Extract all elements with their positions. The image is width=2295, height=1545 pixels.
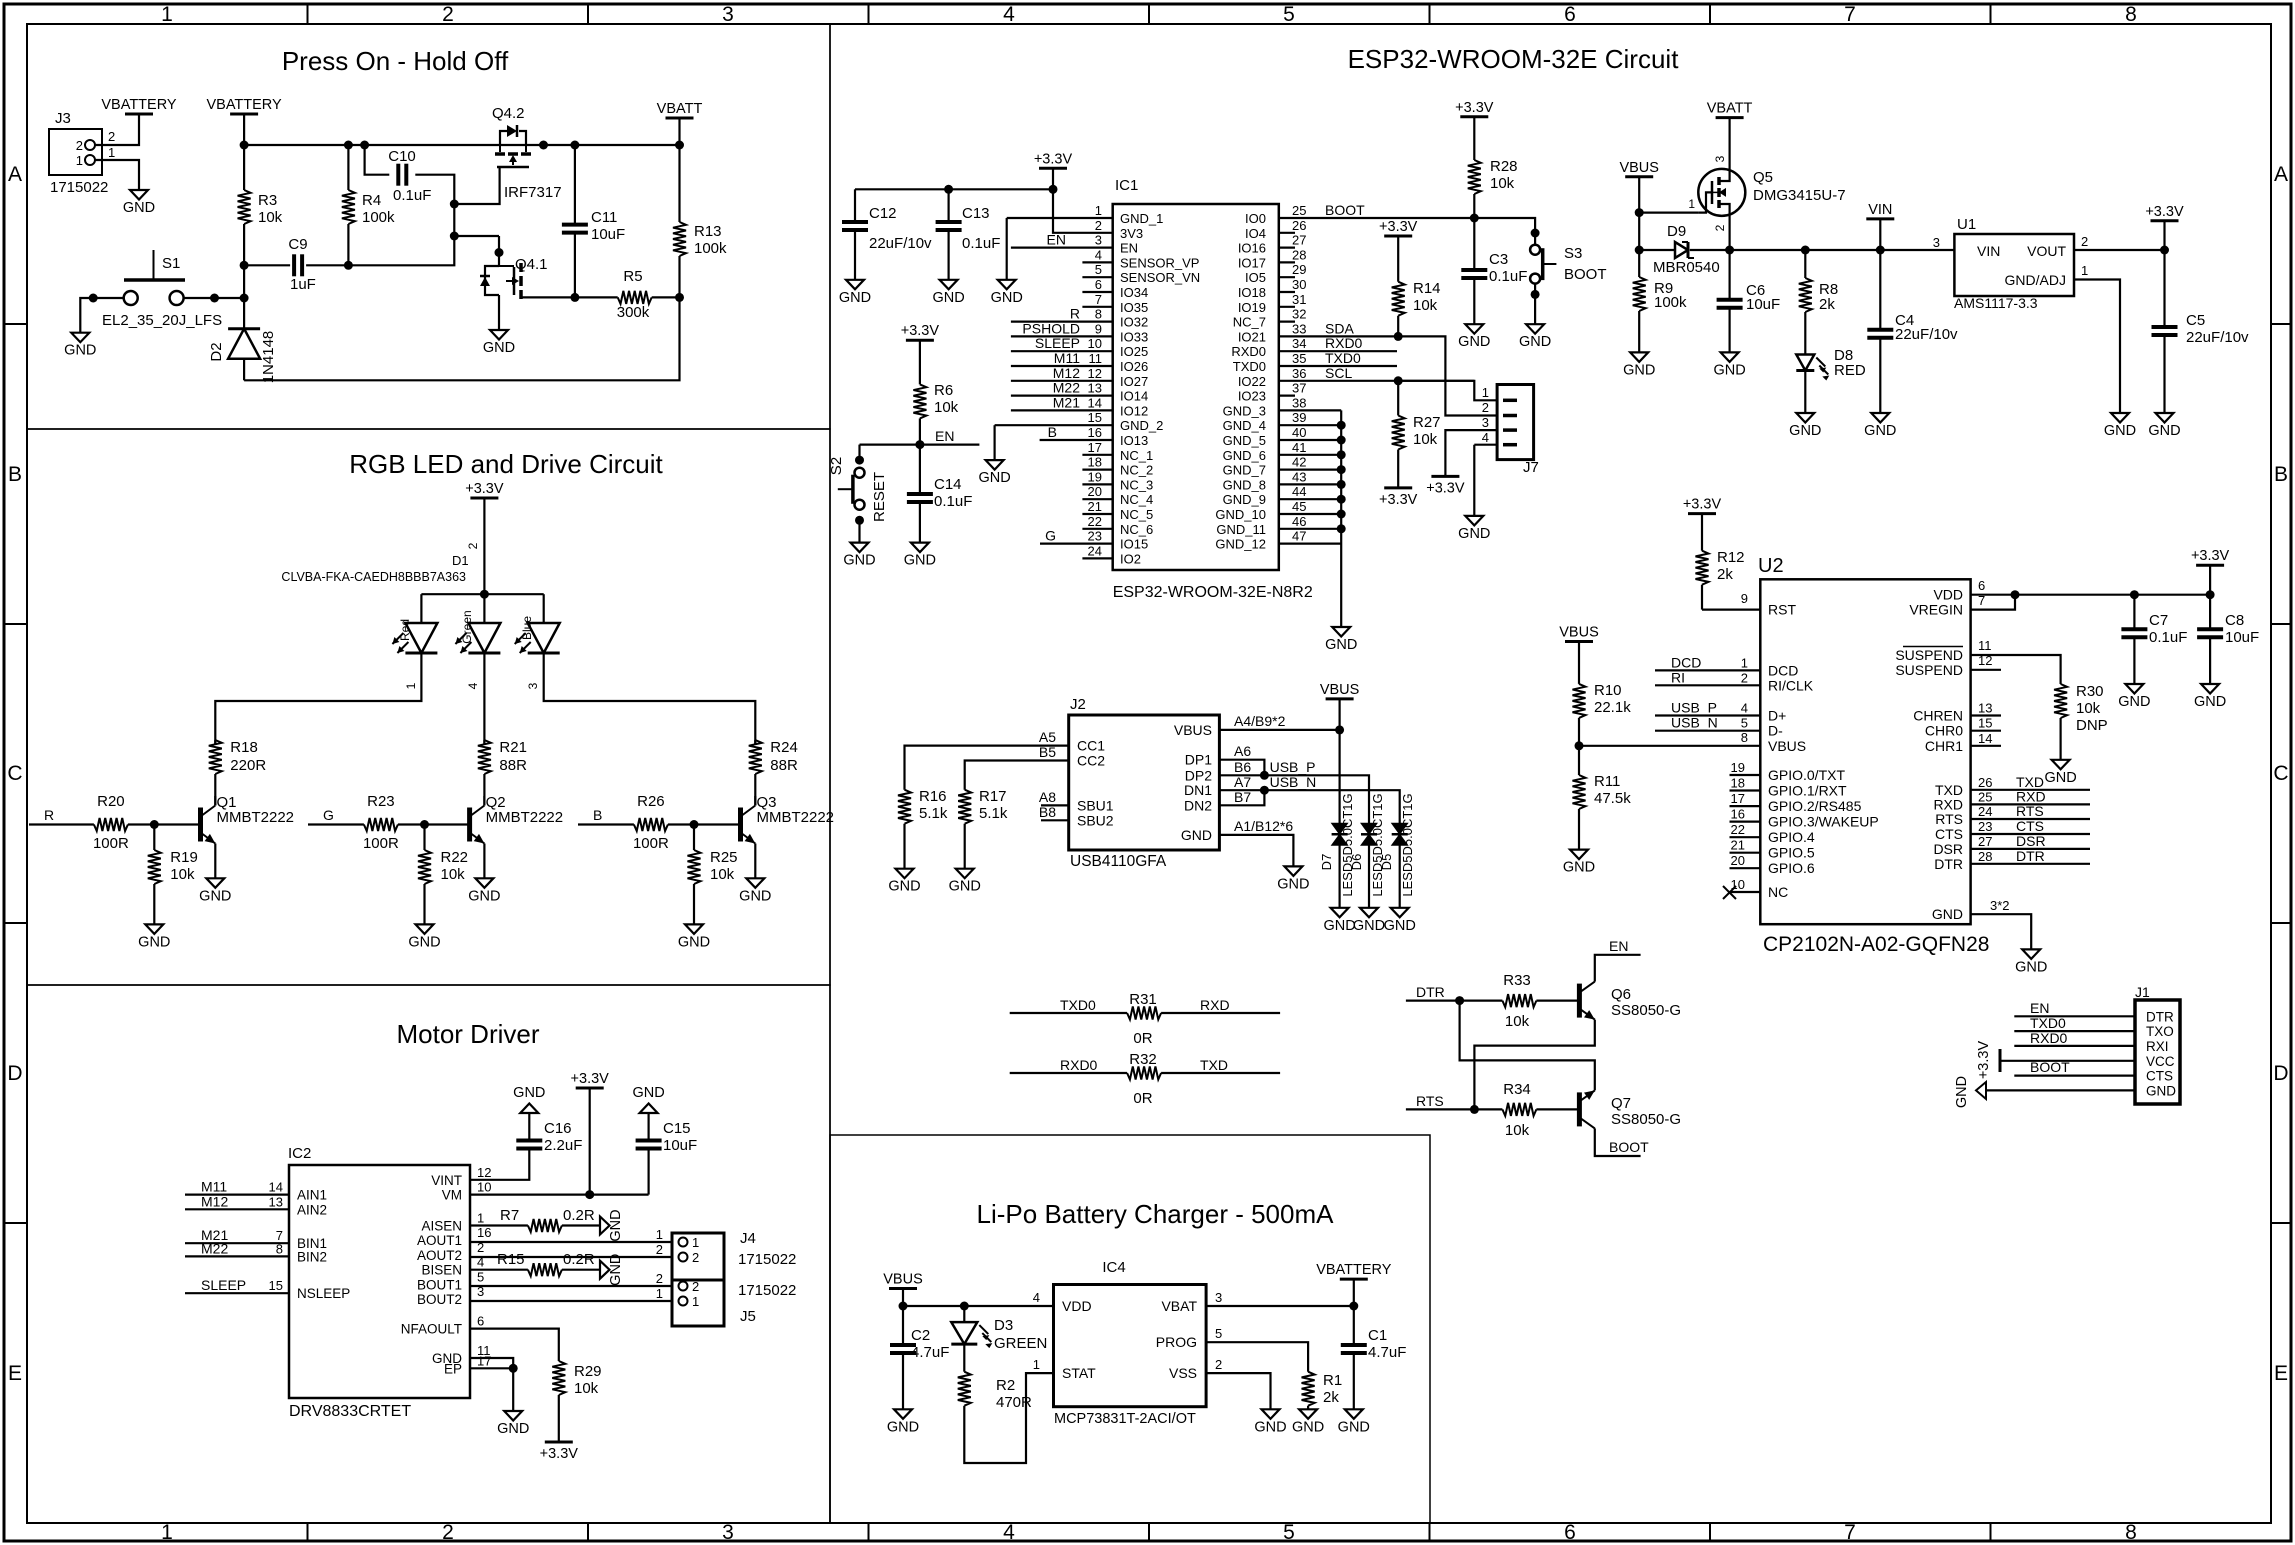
svg-text:DTR: DTR bbox=[1934, 856, 1963, 872]
svg-text:B: B bbox=[8, 463, 22, 486]
wire CC2 to R17 bbox=[965, 761, 1069, 790]
svg-text:28: 28 bbox=[1978, 849, 1992, 864]
svg-text:GND: GND bbox=[1563, 860, 1595, 876]
svg-text:GND: GND bbox=[843, 553, 875, 569]
svg-text:R2: R2 bbox=[996, 1377, 1015, 1394]
wire BOOT pin25 bbox=[1279, 217, 1475, 219]
svg-text:J2: J2 bbox=[1070, 696, 1086, 713]
svg-text:10k: 10k bbox=[170, 866, 195, 883]
wire J7 pin4 to GND bbox=[1474, 444, 1497, 446]
svg-text:R20: R20 bbox=[97, 793, 125, 810]
svg-text:R4: R4 bbox=[362, 192, 381, 209]
svg-text:J3: J3 bbox=[55, 110, 71, 127]
svg-text:RI/CLK: RI/CLK bbox=[1768, 677, 1814, 693]
svg-text:R15: R15 bbox=[497, 1251, 525, 1268]
resistor R25 base pulldown bbox=[693, 825, 695, 851]
svg-text:C16: C16 bbox=[544, 1120, 572, 1137]
power flag VBUS at charger bbox=[889, 1287, 917, 1290]
svg-text:0R: 0R bbox=[1133, 1090, 1152, 1107]
net labels M11 M12 M21 M22 SLEEP bbox=[185, 1193, 289, 1195]
resistor R6 bbox=[919, 340, 921, 384]
svg-text:A4/B9*2: A4/B9*2 bbox=[1234, 713, 1286, 729]
svg-text:GND: GND bbox=[2044, 770, 2076, 786]
svg-text:IO15: IO15 bbox=[1120, 537, 1148, 552]
svg-text:RTS: RTS bbox=[1935, 811, 1963, 827]
svg-text:J1: J1 bbox=[2135, 984, 2150, 1000]
svg-text:Q6: Q6 bbox=[1611, 986, 1631, 1003]
svg-text:R25: R25 bbox=[710, 849, 738, 866]
tvs diode D7 bbox=[1332, 823, 1348, 834]
svg-text:88R: 88R bbox=[499, 757, 527, 774]
svg-text:12: 12 bbox=[477, 1165, 491, 1180]
svg-text:DN1: DN1 bbox=[1184, 782, 1212, 798]
svg-text:2: 2 bbox=[2081, 234, 2088, 249]
svg-text:R28: R28 bbox=[1490, 158, 1518, 175]
svg-text:+3.3V: +3.3V bbox=[571, 1071, 610, 1087]
svg-text:IO2: IO2 bbox=[1120, 551, 1141, 566]
svg-text:22uF/10v: 22uF/10v bbox=[2186, 329, 2249, 346]
svg-text:SCL: SCL bbox=[1325, 365, 1352, 381]
svg-text:1: 1 bbox=[692, 1235, 699, 1250]
svg-text:10k: 10k bbox=[1413, 431, 1438, 448]
svg-text:47.5k: 47.5k bbox=[1594, 790, 1631, 807]
svg-text:DP2: DP2 bbox=[1185, 767, 1212, 783]
svg-text:RXD0: RXD0 bbox=[1231, 344, 1266, 359]
svg-text:EN: EN bbox=[2030, 1000, 2049, 1016]
wire DN1 USB_N bbox=[1219, 790, 1399, 823]
svg-text:GND: GND bbox=[1789, 423, 1821, 439]
svg-text:IO23: IO23 bbox=[1238, 389, 1266, 404]
ground GND at Q4.1 bbox=[490, 330, 508, 340]
svg-text:GND: GND bbox=[608, 1254, 624, 1286]
svg-text:GND: GND bbox=[1338, 1419, 1370, 1435]
svg-text:VDD: VDD bbox=[1933, 587, 1963, 603]
wire BOUT2 to J5 bbox=[470, 1300, 672, 1302]
power flag +3.3V at VM bbox=[576, 1087, 604, 1090]
svg-text:NC_7: NC_7 bbox=[1233, 315, 1266, 330]
svg-text:28: 28 bbox=[1292, 247, 1306, 262]
svg-text:VM: VM bbox=[442, 1188, 462, 1203]
svg-text:GND: GND bbox=[1277, 876, 1309, 892]
wire R3 bottom to S1 node bbox=[243, 265, 245, 298]
resistor R10 bbox=[1573, 684, 1586, 718]
svg-text:EL2_35_20J_LFS: EL2_35_20J_LFS bbox=[102, 312, 222, 329]
svg-text:IO27: IO27 bbox=[1120, 374, 1148, 389]
svg-text:100k: 100k bbox=[694, 240, 727, 257]
svg-text:A1/B12*6: A1/B12*6 bbox=[1234, 818, 1293, 834]
svg-text:2k: 2k bbox=[1819, 296, 1835, 313]
svg-text:22uF/10v: 22uF/10v bbox=[1895, 326, 1958, 343]
net label EN pin3 bbox=[1011, 247, 1113, 249]
svg-text:GND: GND bbox=[123, 200, 155, 216]
led D1 blue element bbox=[543, 594, 545, 623]
ic IC2 DRV8833CRTET box bbox=[289, 1165, 470, 1398]
ground GND at pin1 bbox=[998, 280, 1016, 290]
svg-text:IC1: IC1 bbox=[1115, 177, 1138, 194]
svg-text:C10: C10 bbox=[388, 148, 416, 165]
connector J1 bbox=[2135, 1000, 2180, 1104]
svg-text:5: 5 bbox=[1283, 1521, 1295, 1544]
svg-text:SUSPEND: SUSPEND bbox=[1895, 662, 1963, 678]
svg-text:C13: C13 bbox=[962, 205, 990, 222]
capacitor C5 bbox=[2163, 250, 2165, 327]
wire VBUS flag to D7 bbox=[1338, 699, 1340, 823]
wire Q4.1 source to R5 row bbox=[521, 297, 575, 299]
svg-text:D5: D5 bbox=[1379, 854, 1394, 871]
svg-text:GPIO.0/TXT: GPIO.0/TXT bbox=[1768, 767, 1845, 783]
svg-text:TXD: TXD bbox=[2016, 774, 2044, 790]
svg-text:10k: 10k bbox=[710, 866, 735, 883]
capacitor C16 bbox=[470, 1149, 529, 1180]
svg-text:RXI: RXI bbox=[2146, 1039, 2169, 1054]
power flag VBATTERY rail bbox=[230, 113, 258, 116]
svg-text:IO25: IO25 bbox=[1120, 344, 1148, 359]
svg-text:C14: C14 bbox=[934, 476, 962, 493]
svg-text:1: 1 bbox=[656, 1227, 663, 1242]
svg-text:R10: R10 bbox=[1594, 682, 1622, 699]
wire GND EP of IC2 bbox=[470, 1358, 513, 1368]
net label G pin23 bbox=[1040, 542, 1113, 544]
svg-text:IO12: IO12 bbox=[1120, 403, 1148, 418]
svg-text:+3.3V: +3.3V bbox=[2145, 204, 2184, 220]
svg-text:IO13: IO13 bbox=[1120, 433, 1148, 448]
wire bottom return bbox=[244, 297, 679, 380]
power flag +3.3V at J1 VCC bbox=[1999, 1049, 2002, 1072]
svg-text:46: 46 bbox=[1292, 514, 1306, 529]
wire J3 pin2 to VBATTERY bbox=[95, 114, 139, 145]
svg-text:6: 6 bbox=[1095, 277, 1102, 292]
power flag +3.3V IC1 bbox=[1039, 167, 1067, 170]
svg-text:VBAT: VBAT bbox=[1161, 1298, 1197, 1314]
svg-text:M11: M11 bbox=[201, 1179, 227, 1195]
wire J7 pin3 to +3.3V bbox=[1445, 430, 1497, 476]
svg-text:Motor Driver: Motor Driver bbox=[396, 1019, 539, 1049]
svg-text:1: 1 bbox=[1095, 203, 1102, 218]
resistor R5 bbox=[575, 296, 618, 298]
svg-text:2: 2 bbox=[656, 1242, 663, 1257]
Q5 gate lead bbox=[1698, 192, 1712, 212]
switch S2 RESET bbox=[858, 445, 860, 461]
svg-text:+3.3V: +3.3V bbox=[1426, 480, 1465, 496]
svg-text:DRV8833CRTET: DRV8833CRTET bbox=[289, 1403, 411, 1420]
connector J7 bbox=[1497, 385, 1534, 460]
ground GND at IC1 bus bbox=[1332, 627, 1350, 637]
svg-text:DCD: DCD bbox=[1671, 654, 1701, 670]
svg-text:NC_2: NC_2 bbox=[1120, 463, 1153, 478]
transistor Q3 MMBT2222 bbox=[738, 808, 743, 842]
svg-text:GND: GND bbox=[1458, 334, 1490, 350]
wire SDA pin33 bbox=[1279, 335, 1398, 337]
wire 3V3 pin2 to rail bbox=[1053, 189, 1113, 233]
wire VSS to GND bbox=[1206, 1373, 1270, 1409]
svg-text:1715022: 1715022 bbox=[50, 179, 108, 196]
svg-text:BOOT: BOOT bbox=[2030, 1059, 2070, 1075]
svg-text:2: 2 bbox=[656, 1271, 663, 1286]
resistor R22 base pulldown bbox=[423, 825, 425, 851]
U2 TXD RXD RTS CTS DSR DTR wires bbox=[1971, 789, 2090, 791]
wire VBAT to VBATTERY bbox=[1206, 1305, 1354, 1307]
svg-text:C11: C11 bbox=[591, 209, 617, 226]
U2 left wires DCD RI bbox=[1655, 669, 1760, 671]
U2 left wires USB_P USB_N bbox=[1655, 714, 1760, 716]
IC1 GND bus pins 38-47 bbox=[1279, 409, 1341, 411]
svg-text:2: 2 bbox=[76, 138, 83, 153]
svg-text:RESET: RESET bbox=[871, 472, 888, 522]
svg-text:GND_4: GND_4 bbox=[1223, 418, 1266, 433]
svg-text:10k: 10k bbox=[258, 209, 283, 226]
svg-text:Q4.2: Q4.2 bbox=[492, 105, 525, 122]
svg-text:VBUS: VBUS bbox=[1619, 160, 1659, 176]
svg-text:TXD0: TXD0 bbox=[1233, 359, 1266, 374]
svg-text:CTS: CTS bbox=[2016, 818, 2044, 834]
wire S1 right to node bbox=[184, 297, 245, 299]
power flag +3.3V at U1 bbox=[2151, 219, 2179, 222]
svg-text:2.2uF: 2.2uF bbox=[544, 1137, 582, 1154]
svg-text:+3.3V: +3.3V bbox=[465, 481, 504, 497]
svg-text:TXD0: TXD0 bbox=[1325, 350, 1361, 366]
svg-text:J5: J5 bbox=[740, 1308, 756, 1325]
svg-text:+3.3V: +3.3V bbox=[1455, 100, 1494, 116]
svg-text:1: 1 bbox=[2081, 263, 2088, 278]
svg-text:26: 26 bbox=[1292, 218, 1306, 233]
U2 SUSPEND pin12 stub bbox=[1971, 669, 2001, 671]
svg-text:SS8050-G: SS8050-G bbox=[1611, 1002, 1681, 1019]
svg-text:GND: GND bbox=[978, 470, 1010, 486]
ground GND at S1 bbox=[71, 333, 89, 343]
capacitor C14 bbox=[919, 445, 921, 494]
svg-text:J4: J4 bbox=[740, 1230, 756, 1247]
svg-text:D6: D6 bbox=[1349, 854, 1364, 871]
resistor R19 base pulldown bbox=[153, 825, 155, 851]
svg-text:VBUS: VBUS bbox=[1174, 722, 1212, 738]
svg-text:GND: GND bbox=[739, 888, 771, 904]
power flag VBATT bbox=[666, 117, 694, 120]
svg-text:10uF: 10uF bbox=[2225, 629, 2259, 646]
svg-text:CHR0: CHR0 bbox=[1925, 723, 1963, 739]
svg-text:GND: GND bbox=[1954, 1076, 1970, 1108]
power flag VBATTERY at J3 bbox=[125, 113, 153, 116]
svg-text:4: 4 bbox=[1741, 701, 1748, 716]
svg-text:GND: GND bbox=[1181, 827, 1212, 843]
svg-text:25: 25 bbox=[1978, 789, 1992, 804]
svg-text:SBU2: SBU2 bbox=[1077, 812, 1114, 828]
resistor R30 bbox=[2054, 684, 2067, 718]
svg-text:1715022: 1715022 bbox=[738, 1251, 796, 1268]
svg-text:VBUS: VBUS bbox=[883, 1272, 923, 1288]
svg-text:5: 5 bbox=[1283, 3, 1295, 26]
svg-text:13: 13 bbox=[269, 1194, 283, 1209]
svg-text:+3.3V: +3.3V bbox=[901, 323, 940, 339]
svg-text:C8: C8 bbox=[2225, 612, 2244, 629]
svg-text:5: 5 bbox=[1095, 262, 1102, 277]
svg-text:Blue: Blue bbox=[520, 616, 534, 640]
svg-text:16: 16 bbox=[1088, 425, 1102, 440]
ground GND at U2 bbox=[2022, 949, 2040, 959]
svg-text:1: 1 bbox=[404, 682, 418, 689]
svg-text:VBUS: VBUS bbox=[1559, 625, 1599, 641]
wire DP1 bbox=[1219, 760, 1264, 776]
wire VBUS pin8 bbox=[1579, 745, 1760, 747]
svg-text:DMG3415U-7: DMG3415U-7 bbox=[1753, 187, 1846, 204]
net label B pin16 bbox=[1040, 439, 1113, 441]
svg-text:R18: R18 bbox=[230, 739, 258, 756]
svg-text:SS8050-G: SS8050-G bbox=[1611, 1111, 1681, 1128]
svg-text:Li-Po Battery Charger - 500mA: Li-Po Battery Charger - 500mA bbox=[977, 1199, 1335, 1229]
ground GND at D6 bbox=[1360, 908, 1378, 918]
svg-text:13: 13 bbox=[1088, 381, 1102, 396]
ic IC4 MCP73831 box bbox=[1054, 1285, 1207, 1407]
resistor R14 bbox=[1397, 236, 1399, 282]
svg-text:R22: R22 bbox=[441, 849, 469, 866]
svg-text:GND_10: GND_10 bbox=[1215, 507, 1266, 522]
svg-text:MBR0540: MBR0540 bbox=[1653, 259, 1720, 276]
wire +3.3V to D1 anode bus bbox=[483, 498, 485, 594]
power flag VBUS at R10 bbox=[1565, 640, 1593, 643]
svg-text:3*2: 3*2 bbox=[1990, 898, 2010, 913]
wire input R bbox=[29, 823, 94, 825]
wire base R25 bbox=[668, 823, 739, 825]
mosfet Q4.2 IRF7317 bbox=[499, 145, 501, 152]
svg-text:220R: 220R bbox=[230, 757, 266, 774]
svg-text:GND_11: GND_11 bbox=[1216, 522, 1266, 537]
svg-text:CTS: CTS bbox=[2146, 1069, 2173, 1084]
svg-text:SBU1: SBU1 bbox=[1077, 797, 1114, 813]
regulator U1 AMS1117-3.3 bbox=[1954, 234, 2074, 296]
svg-text:GND/ADJ: GND/ADJ bbox=[2005, 272, 2066, 288]
svg-text:+3.3V: +3.3V bbox=[1379, 492, 1418, 508]
svg-text:37: 37 bbox=[1292, 381, 1306, 396]
resistor R12 bbox=[1701, 514, 1703, 551]
svg-text:10uF: 10uF bbox=[591, 226, 625, 243]
svg-text:IO5: IO5 bbox=[1245, 270, 1266, 285]
ground GND at C8 bbox=[2201, 684, 2219, 694]
svg-text:2: 2 bbox=[1095, 218, 1102, 233]
svg-text:RXD: RXD bbox=[1200, 997, 1230, 1013]
ground GND at R9 bbox=[1630, 352, 1648, 362]
svg-text:2: 2 bbox=[1482, 400, 1489, 415]
svg-text:GPIO.6: GPIO.6 bbox=[1768, 860, 1815, 876]
svg-text:E: E bbox=[2274, 1362, 2288, 1385]
ground GND at C4 bbox=[1871, 413, 1889, 423]
svg-text:S1: S1 bbox=[162, 255, 180, 272]
resistor R2 470R bbox=[963, 1344, 965, 1372]
svg-text:VREGIN: VREGIN bbox=[1909, 602, 1963, 618]
svg-text:0.1uF: 0.1uF bbox=[1489, 268, 1527, 285]
svg-text:4.7uF: 4.7uF bbox=[1368, 1344, 1406, 1361]
svg-text:10k: 10k bbox=[1505, 1013, 1530, 1030]
svg-text:22: 22 bbox=[1088, 514, 1102, 529]
svg-text:45: 45 bbox=[1292, 499, 1306, 514]
diode D2 1N4148 bbox=[243, 298, 245, 329]
svg-text:VOUT: VOUT bbox=[2027, 243, 2066, 259]
svg-text:IC2: IC2 bbox=[288, 1145, 311, 1162]
svg-text:SUSPEND: SUSPEND bbox=[1895, 647, 1963, 663]
svg-text:1: 1 bbox=[1033, 1357, 1040, 1372]
wire J1 BOOT bbox=[2014, 1074, 2135, 1076]
svg-text:2: 2 bbox=[442, 3, 454, 26]
svg-text:GND: GND bbox=[1458, 526, 1490, 542]
wire J3 pin1 to GND bbox=[95, 160, 139, 190]
svg-text:1: 1 bbox=[76, 153, 83, 168]
wire BOOT to S3 bbox=[1474, 218, 1535, 233]
resistor R17 bbox=[958, 790, 971, 824]
power flag VBATTERY at charger bbox=[1340, 1278, 1368, 1281]
transistor Q7 SS8050-G bbox=[1577, 1092, 1582, 1126]
svg-text:40: 40 bbox=[1292, 425, 1306, 440]
ground GND at IC2 EP bbox=[504, 1411, 522, 1421]
svg-text:0R: 0R bbox=[1133, 1030, 1152, 1047]
svg-text:2: 2 bbox=[692, 1279, 699, 1294]
svg-text:B8: B8 bbox=[1039, 804, 1056, 820]
led D1 red element bbox=[420, 594, 422, 623]
svg-text:MMBT2222: MMBT2222 bbox=[486, 809, 564, 826]
svg-text:2: 2 bbox=[442, 1521, 454, 1544]
svg-text:GND: GND bbox=[1932, 906, 1963, 922]
wire top rail y=145 bbox=[244, 144, 679, 146]
wire NFAOULT to R29 bbox=[470, 1329, 559, 1361]
svg-text:C7: C7 bbox=[2149, 612, 2168, 629]
net label RTS bbox=[1406, 1108, 1503, 1110]
ground GND at D7 bbox=[1331, 908, 1349, 918]
wire Q7 collector to BOOT bbox=[1595, 1128, 1641, 1156]
svg-text:7: 7 bbox=[1095, 292, 1102, 307]
svg-text:8: 8 bbox=[1095, 307, 1102, 322]
svg-text:24: 24 bbox=[1978, 804, 1992, 819]
ground GND at S3 bbox=[1526, 324, 1544, 334]
svg-text:4: 4 bbox=[1003, 3, 1015, 26]
svg-text:36: 36 bbox=[1292, 366, 1306, 381]
wire DTR to Q7 emitter bbox=[1460, 1001, 1595, 1091]
svg-text:3: 3 bbox=[722, 3, 734, 26]
svg-text:LESD5D5.0CT1G: LESD5D5.0CT1G bbox=[1340, 793, 1355, 896]
wire C9 node to Q4 gate node bbox=[348, 204, 454, 265]
svg-text:DTR: DTR bbox=[2016, 848, 2045, 864]
ground GND at C6 bbox=[1721, 352, 1739, 362]
svg-text:VBATTERY: VBATTERY bbox=[206, 97, 282, 113]
ground GND at Q2 bbox=[475, 878, 493, 888]
wire Q6 collector to EN bbox=[1595, 955, 1641, 982]
svg-text:3: 3 bbox=[1482, 415, 1489, 430]
resistor R15 0.2R bbox=[470, 1269, 528, 1271]
svg-text:NC_6: NC_6 bbox=[1120, 522, 1153, 537]
svg-text:GND: GND bbox=[138, 934, 170, 950]
svg-text:29: 29 bbox=[1292, 262, 1306, 277]
svg-text:41: 41 bbox=[1292, 440, 1306, 455]
svg-text:S3: S3 bbox=[1564, 245, 1582, 262]
svg-text:88R: 88R bbox=[770, 757, 798, 774]
svg-text:RXD0: RXD0 bbox=[1325, 335, 1363, 351]
svg-text:8: 8 bbox=[2125, 3, 2137, 26]
svg-text:+3.3V: +3.3V bbox=[540, 1446, 579, 1462]
svg-text:18: 18 bbox=[1731, 776, 1745, 791]
svg-text:44: 44 bbox=[1292, 484, 1306, 499]
svg-text:5: 5 bbox=[1215, 1326, 1222, 1341]
svg-text:VBUS: VBUS bbox=[1768, 738, 1806, 754]
svg-text:IRF7317: IRF7317 bbox=[504, 184, 562, 201]
wire PROG to R1 bbox=[1206, 1342, 1308, 1372]
svg-text:R14: R14 bbox=[1413, 280, 1441, 297]
svg-text:CLVBA-FKA-CAEDH8BBB7A363: CLVBA-FKA-CAEDH8BBB7A363 bbox=[281, 570, 466, 584]
svg-text:VBATTERY: VBATTERY bbox=[1316, 1262, 1392, 1278]
svg-text:20: 20 bbox=[1731, 853, 1745, 868]
section box Press On - Hold Off bbox=[27, 24, 830, 429]
svg-text:M22: M22 bbox=[1053, 380, 1080, 396]
svg-text:4: 4 bbox=[1482, 430, 1489, 445]
svg-text:17: 17 bbox=[1088, 440, 1102, 455]
svg-text:21: 21 bbox=[1731, 838, 1745, 853]
svg-text:AOUT2: AOUT2 bbox=[417, 1248, 462, 1263]
svg-text:VCC: VCC bbox=[2146, 1054, 2175, 1069]
